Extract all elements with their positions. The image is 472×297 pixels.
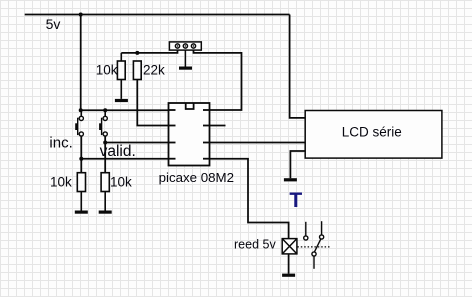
svg-text:5v: 5v	[46, 16, 61, 32]
svg-text:picaxe 08M2: picaxe 08M2	[159, 170, 234, 185]
wire button top bus to IC pin L1	[81, 109, 169, 111]
wire inc node down to resistor	[80, 159, 82, 173]
reed switch contact right	[320, 221, 324, 239]
resistor 22k	[133, 61, 141, 80]
ground of connector	[179, 67, 192, 70]
svg-text:10k: 10k	[50, 175, 72, 190]
wire top resistor bus 10k/22k to connector pin1	[121, 50, 177, 53]
wire valid node down to resistor	[104, 143, 106, 173]
junction node inc	[79, 157, 83, 161]
ground of reed	[282, 274, 295, 277]
wire IC pin R2 stub	[210, 125, 226, 127]
wire 5v drop to LCD pin	[290, 15, 306, 118]
pin ticks right	[203, 109, 210, 111]
pushbutton valid.	[102, 110, 108, 136]
pin ticks left	[169, 109, 176, 111]
reed switch contact left	[304, 222, 308, 240]
wire left rail down from 5v	[80, 15, 82, 111]
pushbutton inc.	[78, 110, 84, 136]
connector pin2 ground stem	[184, 50, 186, 66]
wire IC pin R3 to LCD	[210, 142, 306, 144]
wire connector pin3 loop to IC pin R1	[194, 50, 242, 110]
ground of 10k top	[115, 99, 128, 102]
reed switch moving contact	[312, 239, 321, 269]
svg-text:22k: 22k	[143, 62, 165, 77]
mechanical link dotted from coil to switch	[297, 246, 329, 248]
svg-text:10k: 10k	[96, 62, 118, 77]
ground of inc resistor	[75, 211, 88, 214]
svg-text:valid.: valid.	[100, 143, 136, 160]
wire inc node to IC pin L4	[81, 136, 168, 159]
wire 5v rail top	[25, 14, 290, 16]
ground of valid resistor	[99, 211, 112, 214]
resistor 10k top	[117, 53, 125, 99]
ground of LCD	[284, 178, 297, 181]
resistor 10k (valid pulldown)	[101, 173, 109, 211]
svg-text:reed 5v: reed 5v	[234, 238, 276, 252]
svg-text:inc.: inc.	[49, 135, 72, 152]
junction node valid	[103, 141, 107, 145]
op IC U1 picaxe 08M2 DIP-8 outline	[169, 103, 210, 166]
connector J1 (3-pin header)	[169, 42, 201, 67]
relay coil reed (box with X)	[282, 239, 297, 254]
switch lever diagonal	[315, 239, 321, 252]
svg-text:10k: 10k	[110, 175, 132, 190]
junction node 5v/left-rail	[79, 13, 83, 17]
wire 22k bottom to IC pin L2	[137, 80, 168, 126]
junction node 22k top	[135, 51, 139, 55]
resistor 10k (inc pulldown)	[77, 173, 85, 211]
wire LCD ground tap	[290, 151, 305, 178]
wire reed coil to ground	[288, 254, 290, 274]
svg-text:LCD série: LCD série	[342, 125, 402, 140]
junction node button2 top	[103, 108, 107, 112]
notch top center	[186, 103, 194, 109]
wire valid node to IC pin L3	[105, 136, 168, 143]
LCD serie box	[305, 111, 442, 159]
wire IC pin R4 to reed coil	[210, 159, 289, 239]
svg-text:T: T	[289, 189, 302, 212]
junction node button1 top	[79, 108, 83, 112]
